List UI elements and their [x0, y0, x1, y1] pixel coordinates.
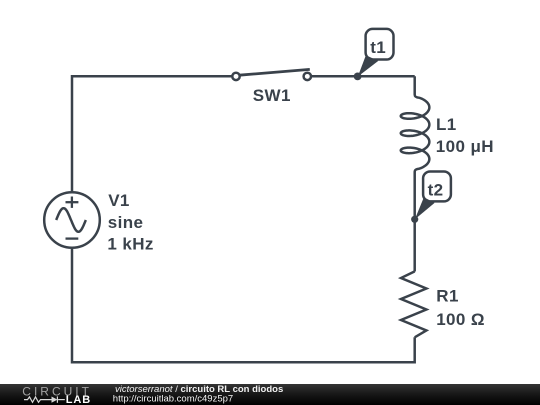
- svg-text:t1: t1: [370, 38, 386, 57]
- svg-text:SW1: SW1: [253, 86, 291, 105]
- svg-text:R1: R1: [436, 286, 459, 305]
- svg-text:100 Ω: 100 Ω: [436, 310, 485, 329]
- svg-text:sine: sine: [108, 213, 144, 232]
- svg-text:t2: t2: [428, 180, 444, 199]
- svg-text:L1: L1: [436, 115, 457, 134]
- svg-text:http://circuitlab.com/c49z5p7: http://circuitlab.com/c49z5p7: [113, 394, 233, 405]
- svg-text:LAB: LAB: [66, 394, 91, 405]
- svg-text:100 μH: 100 μH: [436, 137, 494, 156]
- svg-text:1 kHz: 1 kHz: [107, 234, 153, 253]
- svg-text:V1: V1: [108, 191, 130, 210]
